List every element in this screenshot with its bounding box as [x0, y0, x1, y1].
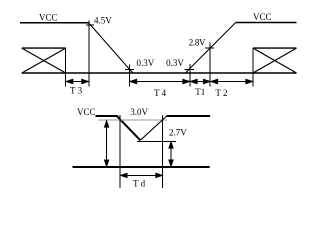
svg-text:2.7V: 2.7V: [169, 128, 187, 138]
svg-text:T 3: T 3: [70, 86, 83, 96]
svg-text:VCC: VCC: [77, 107, 96, 117]
svg-text:0.3V: 0.3V: [137, 58, 155, 68]
svg-text:4.5V: 4.5V: [94, 16, 112, 26]
svg-text:0.3V: 0.3V: [166, 58, 184, 68]
svg-text:2.8V: 2.8V: [189, 38, 206, 48]
svg-text:3.0V: 3.0V: [130, 107, 148, 117]
svg-text:T d: T d: [133, 179, 146, 189]
svg-text:T 2: T 2: [215, 88, 227, 98]
svg-text:VCC: VCC: [253, 12, 272, 22]
svg-text:T 4: T 4: [154, 88, 167, 98]
svg-text:VCC: VCC: [39, 12, 58, 22]
svg-text:T1: T1: [195, 87, 205, 97]
